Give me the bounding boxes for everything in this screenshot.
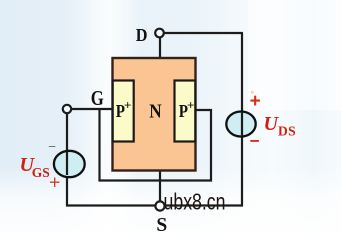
svg-text:−: − [250,132,260,151]
svg-text:+: + [187,98,194,113]
source UGS [54,151,85,177]
svg-text:+: + [250,91,261,112]
n-region channel body [113,58,196,171]
source UDS [226,112,255,137]
svg-text:+: + [124,98,131,113]
terminal D [155,29,164,38]
svg-text:S: S [156,215,167,232]
wire left vertical through UGS [66,112,68,207]
svg-text:G: G [91,87,104,110]
wire through UGS [66,152,68,175]
wire bottom left from S to UGS branch [66,204,157,206]
wire gate horizontal [70,108,113,110]
svg-text:ubx8.cn: ubx8.cn [164,189,226,215]
svg-text:DS: DS [278,124,296,139]
wire bottom right to S [163,204,243,206]
svg-text:+: + [49,171,60,193]
terminal S [155,201,164,210]
svg-text:N: N [149,100,162,123]
wire through UDS [241,112,243,136]
wire D horizontal to UDS branch [163,32,243,34]
wire gate stub right P+ [194,109,212,111]
wire gate loop right vertical [210,109,212,182]
svg-text:−: − [48,139,56,154]
wire D vertical (drain lead) [159,37,161,59]
wire gate loop bottom [99,179,213,181]
p+ region left [113,81,134,142]
wire right vertical through UDS [241,33,243,206]
svg-text:GS: GS [32,165,50,180]
wire gate loop left vertical [98,108,100,182]
terminal G [63,105,71,113]
wire source vertical [159,170,161,202]
svg-text:D: D [136,25,148,45]
p+ region right [175,81,196,142]
